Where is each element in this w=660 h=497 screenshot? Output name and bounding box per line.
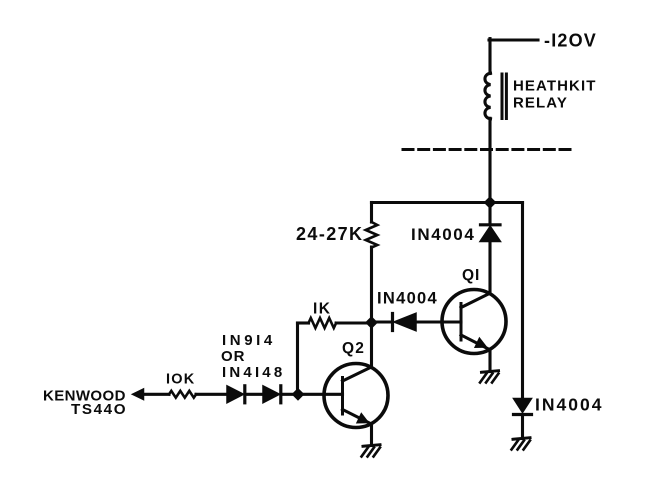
wire diode D1b to node bbox=[282, 393, 298, 396]
inductor L1 relay coil bbox=[485, 73, 491, 119]
transistor Q2 base bar bbox=[341, 378, 344, 415]
wire right branch vertical bbox=[521, 203, 524, 399]
wire diode D2 to Q1 base bbox=[416, 320, 461, 323]
svg-text:IN9I4: IN9I4 bbox=[222, 332, 276, 349]
svg-text:IOK: IOK bbox=[166, 372, 195, 388]
transistor Q1 base bar bbox=[460, 304, 463, 341]
label KENWOOD TS440 bbox=[43, 388, 127, 419]
ground (right branch) bbox=[512, 438, 531, 450]
wire Q2 emitter to ground bbox=[370, 424, 373, 445]
svg-text:IK: IK bbox=[313, 301, 332, 318]
svg-text:IN4I48: IN4I48 bbox=[222, 364, 285, 381]
transistor Q1 emitter lead with arrow bbox=[461, 335, 490, 350]
diode D1a 1N914 (pointing right) bbox=[227, 386, 245, 403]
transistor Q2 emitter lead with arrow bbox=[343, 410, 372, 425]
wire feedback vertical (1K to base node) bbox=[296, 323, 299, 394]
ground (Q2 emitter) bbox=[362, 445, 381, 457]
ground (Q1 emitter) bbox=[480, 371, 499, 383]
svg-text:TS44O: TS44O bbox=[71, 401, 127, 418]
wire node to Q2 base bbox=[298, 393, 343, 396]
wire arrow to resistor 10K bbox=[141, 393, 169, 396]
transistor Q1 collector lead bbox=[461, 293, 490, 307]
wire resistor 10K to diode D1a bbox=[196, 393, 227, 396]
node junction base of Q2 bbox=[292, 389, 303, 400]
transistor Q2 collector lead bbox=[343, 367, 372, 381]
resistor R2 24-27K bbox=[366, 222, 378, 248]
wire bus to resistor 24-27K bbox=[370, 203, 373, 223]
wire Q1 emitter to ground bbox=[488, 350, 491, 372]
dashed mechanical linkage line bbox=[403, 148, 572, 151]
label HEATHKIT RELAY bbox=[513, 78, 597, 112]
transistor Q2 body bbox=[324, 364, 388, 428]
wire left end to resistor 1K bbox=[298, 321, 309, 324]
diode D3 1N4004 (center, pointing up) bbox=[480, 225, 501, 242]
diode D1b 1N4148 (pointing right) bbox=[263, 386, 281, 403]
svg-text:IN4004: IN4004 bbox=[535, 395, 603, 415]
resistor R1 10K bbox=[169, 391, 196, 398]
svg-text:HEATHKIT: HEATHKIT bbox=[513, 78, 597, 95]
wire supply vertical down to relay coil bbox=[488, 39, 491, 74]
wire bus to diode D3 bbox=[488, 203, 491, 224]
svg-text:-I2OV: -I2OV bbox=[544, 31, 597, 51]
wire between diodes bbox=[246, 393, 263, 396]
wire top bus horizontal bbox=[372, 201, 523, 204]
wire relay coil to collector bus bbox=[488, 118, 491, 203]
node junction collector bus bbox=[484, 197, 495, 208]
label 1N914 OR 1N4148 bbox=[221, 332, 285, 381]
wire diode D3 to Q1 collector bbox=[488, 242, 491, 294]
relay core bar 2 bbox=[505, 74, 508, 119]
arrow to KENWOOD TS440 bbox=[133, 389, 144, 400]
svg-text:IN4004: IN4004 bbox=[377, 290, 438, 308]
wire resistor 24-27K to node B bbox=[370, 247, 373, 323]
svg-text:Q2: Q2 bbox=[342, 340, 365, 357]
svg-text:OR: OR bbox=[221, 348, 246, 365]
wire diode D4 to ground bbox=[521, 416, 524, 439]
wire supply horizontal to -120V label bbox=[489, 38, 538, 41]
diode D2 1N4004 (pointing left into node B) bbox=[393, 313, 417, 331]
svg-text:24-27K: 24-27K bbox=[296, 224, 363, 244]
relay core bar 1 bbox=[501, 74, 504, 119]
node junction B (R2 / 1K / D2 / Q2 collector) bbox=[366, 317, 377, 328]
svg-text:RELAY: RELAY bbox=[513, 95, 568, 112]
wire node B to diode D2 bbox=[372, 320, 392, 323]
svg-text:IN4004: IN4004 bbox=[411, 225, 475, 244]
svg-text:QI: QI bbox=[462, 267, 480, 284]
wire Q2 collector vertical from node B bbox=[370, 323, 373, 367]
diode D4 1N4004 (right branch, pointing down) bbox=[514, 399, 532, 415]
resistor R3 1K bbox=[309, 318, 337, 328]
wire resistor 1K to node B bbox=[336, 321, 371, 324]
transistor Q1 body bbox=[442, 290, 506, 354]
